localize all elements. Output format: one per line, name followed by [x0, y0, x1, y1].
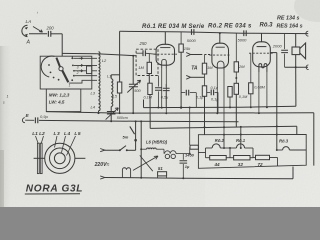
bus rail B [46, 112, 314, 114]
coil L5 [111, 94, 118, 107]
wire 1450 feed [189, 107, 191, 146]
wire antenna to C-200 [29, 33, 47, 35]
svg-text:500: 500 [134, 88, 141, 93]
wire to bus D stage2 [235, 94, 237, 127]
tube Rö.3 RES 164 [249, 42, 273, 73]
coil L1 [107, 75, 113, 93]
svg-text:LW: 4,5: LW: 4,5 [49, 100, 65, 105]
wire tube2 anode to rail [219, 32, 221, 43]
wire lamp node up [189, 147, 191, 154]
svg-text:0,9µ: 0,9µ [40, 114, 49, 119]
coil L2 [99, 52, 108, 87]
wire speaker top [295, 34, 297, 47]
svg-text:2M: 2M [238, 64, 245, 69]
svg-text:200: 200 [46, 26, 55, 31]
wire TA upper [191, 54, 203, 56]
TA input arrows [186, 53, 198, 80]
wire top of coil L2 [62, 52, 96, 54]
wire grid leak down [148, 74, 150, 84]
wire TA lower [191, 76, 205, 78]
svg-text:3: 3 [77, 65, 79, 69]
heater feed tube2 [223, 134, 225, 148]
padder capacitor 500cm [106, 108, 128, 120]
svg-text:Rö.3: Rö.3 [279, 139, 289, 144]
tube Rö.2 RE 034 [209, 43, 231, 70]
svg-text:2000: 2000 [272, 44, 283, 49]
dropper resistor 1450 [185, 145, 198, 157]
resistor 0,1M below detector [144, 83, 153, 99]
wire coil column to bus [98, 111, 100, 114]
band switch selector contacts [71, 56, 75, 81]
label Rö.2 RE 034 s [208, 23, 252, 29]
svg-text:TA: TA [191, 66, 198, 72]
coupling capacitor 5000 [187, 29, 197, 43]
bus rail C [144, 106, 296, 107]
band switch box [40, 56, 92, 89]
svg-text:MW: 1,2,3: MW: 1,2,3 [49, 93, 70, 98]
wire tube2 grid dashes [205, 54, 213, 56]
label Rö.1 RE 034 M Serie [142, 24, 205, 30]
coil assembly labels [32, 131, 81, 137]
coil assembly leader lines [36, 136, 76, 156]
svg-text:5m: 5m [123, 135, 129, 140]
wire anode supply left branch [119, 31, 121, 82]
wire tube1 filament legs [161, 69, 168, 115]
svg-text:Rö.2 RE 034 s: Rö.2 RE 034 s [208, 23, 252, 29]
svg-text:1M: 1M [138, 65, 144, 70]
anode supply rail [120, 31, 309, 33]
svg-text:L3 L4 L5: L3 L4 L5 [54, 131, 82, 137]
bus rail D [150, 126, 297, 128]
wire speaker bottom [295, 55, 297, 69]
wire to bus D [149, 95, 151, 129]
bottom rail right riser [292, 167, 294, 179]
wire resistor to bus B [119, 93, 121, 114]
wire coil to grid box [96, 54, 136, 56]
grid capacitor 250 [136, 41, 157, 56]
contact numbers 1-3 [69, 65, 79, 87]
heater Rö.3 [276, 139, 306, 151]
svg-text:Rö.1 RE 034 M Serie: Rö.1 RE 034 M Serie [142, 24, 205, 30]
coil L3 [91, 88, 101, 100]
wire wiper output [69, 80, 97, 83]
svg-text:51: 51 [158, 166, 163, 171]
svg-text:L6 (HBRΩ): L6 (HBRΩ) [146, 139, 168, 144]
bus rail B right drop [313, 113, 315, 166]
wire tube3 plate right [270, 52, 277, 54]
wire TA branch to bus D [204, 96, 206, 135]
wire tuning cap to bus B [132, 87, 134, 114]
svg-text:2: 2 [76, 71, 79, 75]
svg-text:0,1M: 0,1M [239, 95, 248, 99]
svg-text:A: A [26, 40, 31, 46]
capacitor 200 (antenna series) [46, 26, 55, 37]
mains switch upper pole [130, 120, 137, 150]
capacitor 0,1µ [207, 86, 220, 113]
svg-text:RE 134 s: RE 134 s [277, 16, 299, 22]
choke L6 [141, 139, 168, 149]
wire cell junction [252, 148, 254, 158]
svg-text:1: 1 [69, 84, 71, 88]
tuning capacitor 500 [127, 80, 141, 93]
label RES 164 s [277, 24, 303, 30]
label 5m [123, 135, 129, 140]
capacitor 0,5u [161, 84, 170, 108]
band switch wiper contacts [48, 64, 59, 81]
svg-text:1µ: 1µ [185, 164, 190, 169]
bus rail C left stub [143, 100, 145, 108]
svg-text:LA: LA [26, 19, 32, 25]
svg-text:Rö.2: Rö.2 [215, 138, 225, 143]
wire C-200 to band switch [51, 34, 62, 56]
svg-text:44: 44 [214, 162, 221, 167]
bus rail D right drop [296, 126, 298, 134]
mains lower lead arrow [100, 176, 122, 179]
capacitor 1µ [180, 154, 191, 180]
wire plate branch down to box [276, 53, 278, 150]
resistor 15k [179, 32, 191, 52]
svg-text:0,1µ: 0,1µ [211, 98, 219, 102]
heater Rö.2 [199, 138, 231, 158]
wire L5 bottom to padder [110, 107, 112, 115]
label RE 134 s [277, 16, 299, 22]
rheostat arrow [133, 155, 158, 171]
resistor 72 [253, 155, 270, 167]
wire output to terminal c [285, 65, 309, 70]
svg-text:220V≈: 220V≈ [94, 162, 110, 168]
ground terminal E [22, 113, 29, 123]
svg-text:L3: L3 [91, 91, 96, 96]
svg-text:32: 32 [238, 162, 244, 167]
capacitor 0,9µ [25, 114, 48, 123]
heater feed tube1 [240, 126, 242, 148]
wire tube2 filament legs [216, 70, 225, 134]
bottom rail [122, 178, 293, 179]
mains switch lower pole [100, 146, 135, 152]
svg-text:NORA G3L: NORA G3L [26, 184, 83, 195]
tube Rö.1 RE 034 [154, 44, 177, 68]
antenna terminal LA/A [22, 19, 32, 45]
svg-text:72: 72 [258, 162, 264, 167]
resistor below TA [196, 77, 207, 99]
resistor small [228, 87, 232, 109]
resistor 0,1M stage2 [234, 83, 248, 99]
wire 0,68M down [250, 94, 252, 109]
svg-text:L4: L4 [91, 105, 96, 110]
dashed detector box [136, 49, 158, 75]
title NORA G3L [25, 184, 83, 195]
svg-text:Rö.3: Rö.3 [260, 23, 274, 29]
cap spur at x188 [181, 90, 196, 108]
resistor on left branch [117, 82, 121, 93]
svg-text:15k: 15k [184, 46, 191, 51]
svg-text:1M: 1M [207, 65, 213, 70]
label Rö.3 [260, 23, 274, 29]
trimmer box between taps [87, 66, 92, 74]
contact arrows to coil taps [80, 57, 83, 72]
svg-text:5000: 5000 [187, 38, 197, 43]
svg-text:L1: L1 [107, 75, 111, 79]
coil L4 [91, 101, 101, 111]
wire tube1 anode to rail [164, 32, 166, 45]
capacitor at cathode [155, 76, 162, 109]
margin mark [3, 11, 38, 105]
legend box MW/LW [46, 89, 81, 112]
terminal hook top right [306, 31, 309, 36]
coil assembly windings L1 L2 [37, 143, 42, 173]
resistor 51 [158, 166, 167, 178]
label 220V [94, 162, 110, 168]
svg-text:0,68M: 0,68M [254, 86, 265, 90]
capacitor 2000 [272, 34, 288, 68]
wire tube3 top to rail [261, 33, 263, 41]
volume resistor 1M [202, 55, 213, 78]
heater Rö.1 [229, 138, 253, 158]
svg-text:500cm: 500cm [117, 116, 128, 120]
wire speaker to bus C [295, 67, 297, 106]
heater resistor 44 [206, 156, 231, 168]
fuse bumps on mains lead [122, 168, 130, 178]
svg-text:5000: 5000 [238, 38, 248, 43]
coil assembly axis wire [34, 157, 86, 159]
junction below 2M [235, 72, 237, 83]
wire switch taps to coil L2 [73, 58, 97, 75]
wire mains branch down [140, 120, 142, 178]
wire tube3 filament legs [258, 72, 268, 114]
band switch rotor arc [41, 56, 54, 77]
svg-text:1450: 1450 [185, 152, 195, 157]
svg-text:1: 1 [7, 95, 9, 99]
ground rail [39, 120, 239, 121]
heater resistor 32 [230, 156, 253, 168]
wire 15k down [180, 52, 182, 109]
svg-text:RES 164 s: RES 164 s [277, 24, 303, 30]
dial lamps [164, 149, 190, 158]
svg-text:0,1M: 0,1M [144, 96, 153, 100]
svg-text:L2: L2 [102, 58, 107, 63]
coupling capacitor 5000 second [238, 30, 248, 42]
resistor 2M [234, 33, 245, 72]
svg-text:250: 250 [139, 41, 148, 46]
grid leak resistor 1M [138, 53, 151, 73]
wire L1 top to grid node [111, 75, 119, 79]
coil assembly circles [45, 143, 75, 173]
link arrow from LA to antenna wire [33, 27, 43, 33]
heater distribution box [198, 134, 306, 168]
band switch lever [56, 58, 68, 83]
speaker [292, 43, 306, 59]
band switch pivot [59, 67, 63, 71]
wire grid line to tuning cap [132, 55, 134, 84]
wire after 72 [270, 158, 278, 167]
svg-text:0,1µ: 0,1µ [196, 96, 204, 100]
resistor 0,68M [249, 53, 266, 94]
wire padder to ground rail [110, 114, 112, 122]
